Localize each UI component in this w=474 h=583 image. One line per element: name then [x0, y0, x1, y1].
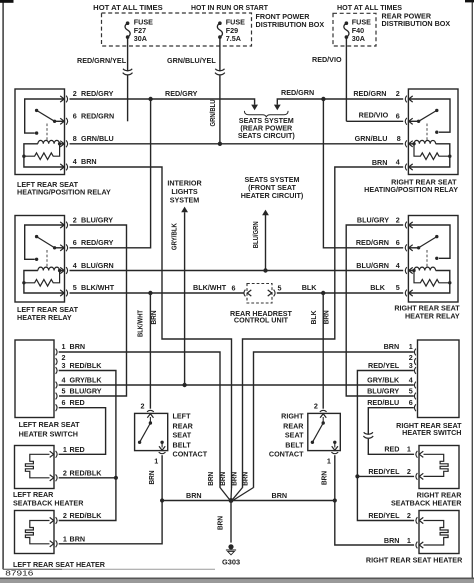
- wire BRN from right relay pin 4 down to ground junction: [243, 167, 404, 488]
- svg-text:RIGHT REAR SEAT HEATER: RIGHT REAR SEAT HEATER: [366, 556, 463, 565]
- wire RED/GRY from left relay pin 2 to seats system arrow: [70, 99, 255, 105]
- heater H2 LEFT REAR SEAT HEATER: [15, 511, 55, 554]
- svg-text:REAR: REAR: [173, 421, 194, 430]
- svg-text:87916: 87916: [5, 569, 33, 578]
- svg-text:CONTACT: CONTACT: [269, 450, 304, 459]
- scanner edge bar bottom: [0, 578, 474, 583]
- svg-text:RIGHT: RIGHT: [281, 412, 304, 421]
- svg-text:5: 5: [278, 284, 282, 293]
- svg-text:RED/YEL: RED/YEL: [368, 361, 400, 370]
- svg-text:BRN: BRN: [149, 311, 158, 325]
- svg-text:BLU/GRY: BLU/GRY: [70, 386, 102, 395]
- svg-text:2: 2: [396, 215, 400, 224]
- svg-text:2: 2: [396, 89, 400, 98]
- switch S1 pin 5: [56, 393, 58, 400]
- relay K3 pin 6: [60, 245, 64, 251]
- svg-text:RED/GRN/YEL: RED/GRN/YEL: [77, 56, 127, 65]
- svg-text:RED/GRN: RED/GRN: [353, 89, 386, 98]
- switch S2 pin 1: [414, 349, 416, 356]
- svg-text:BRN: BRN: [218, 472, 227, 486]
- svg-text:6: 6: [232, 284, 236, 293]
- switch S1 pin 4: [56, 382, 58, 389]
- svg-text:6: 6: [409, 398, 413, 407]
- svg-text:BLU/GRN: BLU/GRN: [356, 261, 389, 270]
- node GRY/BLK junction: [182, 383, 186, 387]
- rear power distribution box (dashed): [333, 13, 376, 46]
- svg-text:BLK: BLK: [370, 283, 386, 292]
- svg-text:RED/GRN: RED/GRN: [356, 238, 389, 247]
- svg-text:BRN: BRN: [186, 491, 202, 500]
- wire RED left switch pin 6 to left seatback heater pin 1: [59, 408, 106, 455]
- wire BLU/GRY right heater relay pin 2 to right switch pin 5: [346, 225, 414, 396]
- switch S2 pin 5: [414, 393, 416, 400]
- svg-text:HEATER CIRCUIT): HEATER CIRCUIT): [241, 191, 304, 200]
- wire RED/BLK branch to left seatback heater pin 2: [59, 477, 116, 479]
- svg-text:5: 5: [73, 283, 77, 292]
- svg-text:2: 2: [314, 402, 318, 411]
- svg-text:BRN: BRN: [272, 491, 288, 500]
- relay K4 pin 6: [409, 245, 413, 251]
- relay K2 resistor: [414, 144, 450, 160]
- page border right: [471, 0, 473, 579]
- svg-text:1: 1: [409, 342, 413, 351]
- svg-text:HEATER RELAY: HEATER RELAY: [405, 312, 460, 321]
- svg-text:GRY/BLK: GRY/BLK: [70, 375, 103, 384]
- svg-text:HEATING/POSITION RELAY: HEATING/POSITION RELAY: [17, 188, 111, 197]
- relay K4 pin 5: [409, 290, 413, 296]
- svg-text:1: 1: [63, 535, 67, 544]
- svg-text:RED: RED: [384, 445, 399, 454]
- svg-text:BRN: BRN: [229, 472, 238, 486]
- svg-text:RED/BLU: RED/BLU: [367, 398, 399, 407]
- relay K3 LEFT REAR SEAT HEATER RELAY: [15, 216, 65, 303]
- svg-text:RED/VIO: RED/VIO: [312, 55, 342, 64]
- relay K4 pin 2: [409, 222, 413, 228]
- svg-text:SYSTEM: SYSTEM: [170, 196, 200, 205]
- relay K1 pin 2: [60, 96, 64, 102]
- svg-text:BRN: BRN: [70, 342, 86, 351]
- svg-text:LEFT REAR SEAT HEATER: LEFT REAR SEAT HEATER: [13, 560, 106, 569]
- wire RED/VIO from fuse F40 to right relay pin 6: [345, 46, 347, 121]
- svg-text:BLK: BLK: [309, 310, 318, 325]
- svg-text:RED/GRN: RED/GRN: [281, 88, 314, 97]
- svg-text:GRY/BLK: GRY/BLK: [367, 375, 400, 384]
- svg-text:7.5A: 7.5A: [226, 34, 241, 43]
- svg-text:SEAT: SEAT: [285, 431, 304, 440]
- svg-text:DISTRIBUTION BOX: DISTRIBUTION BOX: [382, 19, 451, 28]
- svg-text:6: 6: [396, 111, 400, 120]
- svg-text:BRN: BRN: [206, 472, 215, 486]
- contact B1 LEFT REAR SEAT BELT CONTACT: [135, 413, 168, 450]
- relay K1 coil: [24, 144, 65, 156]
- page corner mark top-right: [465, 0, 474, 2]
- relay K2 RIGHT REAR SEAT HEATING/POSITION RELAY: [408, 89, 458, 175]
- switch S2 pin 4: [414, 382, 416, 389]
- svg-text:GRY/BLK: GRY/BLK: [170, 222, 179, 250]
- fuse F29 7.5A: [218, 21, 222, 25]
- svg-text:3: 3: [409, 361, 413, 370]
- svg-text:4: 4: [396, 157, 400, 166]
- node RED/GRY junction: [148, 97, 152, 101]
- node ground junction: [229, 498, 234, 503]
- wire BRN right switch pin 1 down to ground junction: [254, 352, 414, 488]
- svg-text:G303: G303: [222, 557, 240, 566]
- wire BRN left belt contact pin 1 down to bus: [161, 455, 163, 500]
- wire BLU/GRY left heater relay pin 2 to left switch pin 5: [59, 225, 127, 396]
- relay K3 coil: [24, 271, 65, 283]
- wire RED/GRN from right relay pin 2 to seats system arrow: [277, 99, 403, 105]
- wire BRN left seat heater pin 1 to bus: [59, 501, 162, 544]
- svg-text:2: 2: [407, 511, 411, 520]
- wire RED/BLU right switch pin 6 with inline connector to right seatback heater pin 1: [368, 408, 414, 435]
- svg-text:4: 4: [73, 157, 77, 166]
- svg-text:BELT: BELT: [285, 440, 304, 449]
- node RED/BLK junction: [114, 476, 118, 480]
- switch S2 pin 3: [414, 367, 416, 374]
- control unit pin 6: [247, 290, 251, 296]
- wire RED/YEL branch to right seatback heater pin 2: [357, 475, 414, 477]
- svg-text:2: 2: [141, 402, 145, 411]
- svg-text:BLU/GRY: BLU/GRY: [357, 215, 389, 224]
- page corner mark top-left: [0, 0, 14, 3]
- wire GRN/BLU/YEL from fuse F29 with inline connector: [219, 46, 221, 71]
- svg-text:RED/GRY: RED/GRY: [81, 89, 114, 98]
- svg-text:5: 5: [409, 386, 413, 395]
- heater H4 RIGHT REAR SEAT HEATER: [419, 511, 459, 554]
- node BLU/GRN junction: [263, 268, 267, 272]
- svg-text:LEFT REAR SEAT: LEFT REAR SEAT: [19, 420, 81, 429]
- wire GRY/BLK between switch pin 4 left and right: [59, 384, 414, 386]
- svg-text:6: 6: [62, 398, 66, 407]
- svg-text:GRN/BLU: GRN/BLU: [355, 134, 388, 143]
- relay K4 coil: [408, 271, 449, 283]
- node RED/YEL junction: [355, 474, 359, 478]
- relay K1 resistor: [24, 144, 60, 160]
- relay K2 pin 2: [409, 96, 413, 102]
- relay K1 pin 8: [60, 141, 64, 147]
- svg-text:8: 8: [397, 134, 401, 143]
- wire BLK/WHT down to left seat belt contact pin 2: [149, 293, 151, 409]
- ground G303: [228, 544, 233, 549]
- heater H1 LEFT REAR SEATBACK HEATER: [15, 446, 55, 489]
- svg-text:BRN: BRN: [384, 342, 400, 351]
- node bus left: [160, 498, 164, 502]
- svg-text:30A: 30A: [134, 34, 147, 43]
- svg-text:SEAT: SEAT: [173, 431, 192, 440]
- relay K4 resistor: [414, 271, 450, 287]
- wire BRN right seat heater pin 1 to bus: [335, 501, 414, 546]
- svg-text:GRN/BLU: GRN/BLU: [208, 100, 217, 127]
- switch S2 pin 2: [414, 358, 416, 365]
- svg-text:BLK/WHT: BLK/WHT: [193, 283, 227, 292]
- svg-text:2: 2: [407, 467, 411, 476]
- svg-text:6: 6: [396, 238, 400, 247]
- svg-text:RED/GRY: RED/GRY: [81, 238, 114, 247]
- svg-text:SEATBACK HEATER: SEATBACK HEATER: [391, 499, 462, 508]
- svg-text:BRN: BRN: [81, 157, 97, 166]
- wire BLU/GRN between heater relay pin 4 left and right: [70, 270, 404, 272]
- wire RED/GRN branch down to right heater relay pin 6: [323, 99, 403, 248]
- svg-text:BRN: BRN: [372, 158, 388, 167]
- svg-text:5: 5: [396, 283, 400, 292]
- wire GRY/BLK from switch pin 4 row up to interior lights arrow: [184, 212, 186, 385]
- svg-text:6: 6: [73, 111, 77, 120]
- svg-text:HEATING/POSITION RELAY: HEATING/POSITION RELAY: [364, 185, 458, 194]
- wire GRN/BLU between relay pin 8 left and right: [70, 143, 404, 145]
- svg-text:RED/BLK: RED/BLK: [70, 361, 103, 370]
- svg-text:BRN: BRN: [241, 472, 250, 486]
- svg-text:3: 3: [62, 361, 66, 370]
- svg-text:BLK/WHT: BLK/WHT: [136, 310, 145, 337]
- svg-text:BRN: BRN: [147, 471, 156, 485]
- svg-text:2: 2: [73, 89, 77, 98]
- fan wires BRN converging to ground junction: [220, 488, 230, 500]
- svg-text:CONTROL UNIT: CONTROL UNIT: [234, 316, 289, 325]
- svg-text:BRN: BRN: [384, 536, 400, 545]
- switch S2 pin 6: [414, 404, 416, 411]
- relay K2 pin 8: [409, 141, 413, 147]
- svg-text:REAR: REAR: [283, 421, 304, 430]
- wire BRN from left relay pin 4 down to ground junction: [70, 167, 232, 488]
- svg-text:SEATBACK HEATER: SEATBACK HEATER: [13, 499, 84, 508]
- svg-text:RED/GRY: RED/GRY: [165, 89, 198, 98]
- svg-text:GRN/BLU: GRN/BLU: [81, 134, 114, 143]
- heater H3 RIGHT REAR SEATBACK HEATER: [419, 446, 459, 489]
- svg-text:SEATS CIRCUIT): SEATS CIRCUIT): [238, 131, 296, 140]
- svg-text:2: 2: [63, 511, 67, 520]
- page border left: [2, 0, 4, 569]
- wire RED/GRN/YEL from fuse F27 with inline connector: [127, 46, 129, 71]
- node bus right: [333, 498, 337, 502]
- seats system (rear power seats circuit) brace and label: [244, 111, 288, 117]
- node RED/GRN junction: [321, 97, 325, 101]
- svg-text:RED/GRN: RED/GRN: [81, 111, 114, 120]
- svg-text:BRN: BRN: [70, 535, 86, 544]
- wire RED/BLK left switch pin 3 riser: [59, 371, 116, 521]
- relay K3 pin 4: [60, 267, 64, 273]
- svg-text:1: 1: [62, 342, 66, 351]
- svg-text:BLU/GRY: BLU/GRY: [367, 386, 399, 395]
- contact B2 RIGHT REAR SEAT BELT CONTACT: [308, 413, 341, 450]
- relay K2 pin 6: [409, 118, 413, 124]
- wire BLU/GRN branch up to seats system (front) arrow: [265, 215, 267, 271]
- switch S2 RIGHT REAR SEAT HEATER SWITCH: [418, 340, 460, 418]
- control unit pin 5: [268, 290, 272, 296]
- wire BRN bus: [162, 500, 335, 502]
- svg-text:RED: RED: [70, 445, 85, 454]
- wire BLK control unit pin 5 to right heater relay pin 5: [277, 292, 403, 294]
- svg-text:8: 8: [73, 134, 77, 143]
- svg-text:6: 6: [73, 238, 77, 247]
- svg-text:BLU/GRN: BLU/GRN: [81, 261, 114, 270]
- svg-text:RED/BLK: RED/BLK: [70, 511, 103, 520]
- relay K4 RIGHT REAR SEAT HEATER RELAY: [408, 216, 458, 303]
- relay K2 pin 4: [409, 164, 413, 170]
- relay K1 LEFT REAR SEAT HEATING/POSITION RELAY: [15, 89, 65, 175]
- front power distribution box (dashed): [102, 13, 252, 46]
- wire BRN right belt contact pin 1 down to bus: [334, 455, 336, 500]
- relay K2 coil: [408, 144, 449, 156]
- switch S1 pin 2: [56, 358, 58, 365]
- svg-text:DISTRIBUTION BOX: DISTRIBUTION BOX: [256, 20, 325, 29]
- relay K4 pin 4: [409, 267, 413, 273]
- wire RED/YEL right switch pin 3 riser: [357, 371, 414, 521]
- wire BLK down to right seat belt contact pin 2: [322, 293, 324, 409]
- relay K3 pin 5: [60, 290, 64, 296]
- svg-text:4: 4: [73, 261, 77, 270]
- relay K3 pin 2: [60, 222, 64, 228]
- svg-text:BRN: BRN: [321, 310, 330, 324]
- wire RED/GRY branch down to left heater relay pin 6: [70, 99, 151, 248]
- wire BRN to ground G303: [230, 501, 232, 543]
- control unit REAR HEADREST CONTROL UNIT (dashed): [247, 284, 272, 304]
- svg-text:RED/BLK: RED/BLK: [70, 469, 103, 478]
- fuse F27 30A: [126, 21, 130, 25]
- svg-text:HEATER SWITCH: HEATER SWITCH: [19, 429, 78, 438]
- node BLK junction: [321, 291, 325, 295]
- svg-text:1: 1: [407, 536, 411, 545]
- svg-text:BLK: BLK: [302, 283, 318, 292]
- svg-text:LEFT: LEFT: [173, 412, 192, 421]
- svg-text:BLU/GRN: BLU/GRN: [251, 221, 260, 248]
- switch S1 LEFT REAR SEAT HEATER SWITCH: [15, 340, 54, 418]
- svg-text:HEATER SWITCH: HEATER SWITCH: [402, 428, 461, 437]
- svg-text:1: 1: [63, 445, 67, 454]
- svg-text:BELT: BELT: [173, 440, 192, 449]
- svg-text:1: 1: [327, 456, 331, 465]
- svg-text:30A: 30A: [352, 34, 365, 43]
- svg-text:1: 1: [407, 445, 411, 454]
- node GRN/BLU junction from fuse F29: [218, 142, 222, 146]
- svg-text:RED: RED: [70, 398, 85, 407]
- page border bottom: [3, 568, 215, 570]
- switch S1 pin 1: [56, 349, 58, 356]
- wire BLK/WHT left heater relay pin 5 to rear headrest control unit pin 6: [70, 292, 245, 294]
- svg-text:2: 2: [63, 469, 67, 478]
- wire BRN left switch pin 1 down to ground junction: [59, 352, 220, 488]
- svg-text:BLU/GRY: BLU/GRY: [81, 215, 113, 224]
- switch S1 pin 3: [56, 367, 58, 374]
- switch S1 pin 6: [56, 404, 58, 411]
- fuse F40 30A: [345, 21, 349, 25]
- svg-text:2: 2: [73, 215, 77, 224]
- svg-text:GRN/BLU/YEL: GRN/BLU/YEL: [167, 56, 216, 65]
- svg-text:1: 1: [154, 456, 158, 465]
- svg-text:5: 5: [62, 386, 66, 395]
- svg-text:BRN: BRN: [320, 471, 329, 485]
- svg-text:HOT IN RUN OR START: HOT IN RUN OR START: [191, 3, 269, 12]
- svg-text:RED/VIO: RED/VIO: [359, 111, 389, 120]
- relay K3 resistor: [24, 271, 60, 287]
- svg-text:RED/YEL: RED/YEL: [368, 511, 400, 520]
- svg-text:BRN: BRN: [216, 516, 225, 530]
- svg-text:HOT AT ALL TIMES: HOT AT ALL TIMES: [93, 3, 163, 12]
- svg-text:BLK/WHT: BLK/WHT: [81, 283, 115, 292]
- svg-text:HEATER RELAY: HEATER RELAY: [17, 313, 72, 322]
- node BLK/WHT junction: [148, 291, 152, 295]
- svg-text:4: 4: [62, 375, 66, 384]
- svg-text:CONTACT: CONTACT: [173, 450, 208, 459]
- svg-text:4: 4: [409, 375, 413, 384]
- relay K1 pin 6: [60, 118, 64, 124]
- relay K1 pin 4: [60, 164, 64, 170]
- svg-text:4: 4: [396, 261, 400, 270]
- svg-text:RED/YEL: RED/YEL: [368, 467, 400, 476]
